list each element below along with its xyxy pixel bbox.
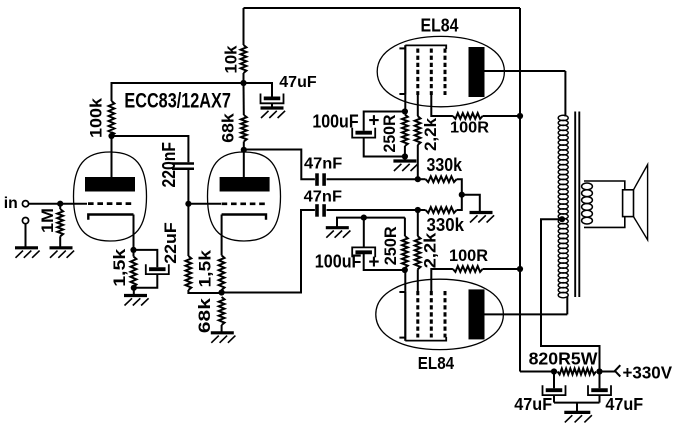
svg-text:820R5W: 820R5W xyxy=(529,348,599,368)
grid V1a dashed xyxy=(88,202,133,205)
wire 47uF right top lead xyxy=(599,372,601,389)
svg-text:+: + xyxy=(368,111,379,132)
label 100uF upper xyxy=(312,111,358,132)
ground decoupling cap xyxy=(261,108,286,118)
wire V2 g2 lead xyxy=(431,95,453,116)
wire V3 g2 lead xyxy=(431,269,453,291)
terminal input shield xyxy=(22,218,28,224)
resistor R 330k lower xyxy=(426,207,457,213)
capacitor C 47nF lower xyxy=(317,204,324,217)
capacitor C 22uF bypass xyxy=(146,264,169,274)
wire 100uF lower ground link xyxy=(337,218,405,227)
label 330k upper xyxy=(427,155,463,175)
wire 100uF upper to ground xyxy=(364,138,405,157)
svg-text:in: in xyxy=(4,195,18,212)
label 22uF xyxy=(162,222,180,264)
svg-text:47uF: 47uF xyxy=(605,394,643,414)
capacitor C 47uF decoupling xyxy=(261,94,284,104)
label 820R5W xyxy=(529,348,599,368)
label 250R upper xyxy=(380,115,399,153)
svg-text:ECC83/12AX7: ECC83/12AX7 xyxy=(124,90,231,113)
node 100uF lower junction xyxy=(361,215,367,221)
resistor R 1M xyxy=(57,209,63,236)
label 47uF right xyxy=(605,394,643,414)
label EL84 lower xyxy=(418,353,455,373)
label ECC83/12AX7 xyxy=(124,90,231,113)
resistor R 68k anode xyxy=(241,115,247,142)
wire 47uF to ground xyxy=(271,103,273,107)
node V1a cathode bottom junction xyxy=(131,285,137,291)
node V1b grid junction xyxy=(185,201,191,207)
resistor R 100R upper xyxy=(453,113,483,119)
wire 100R upper to rail xyxy=(483,115,520,117)
label 68k anode xyxy=(219,113,238,143)
wire secondary top lead xyxy=(584,181,625,190)
tube V1b envelope xyxy=(208,152,281,241)
svg-text:250R: 250R xyxy=(381,226,400,265)
ground input shield xyxy=(15,248,40,258)
wire 47uF right bottom lead xyxy=(599,395,601,403)
wire 22uF bottom link xyxy=(134,274,158,288)
resistor R 100R lower xyxy=(453,266,483,272)
wire 220nF to V1b grid xyxy=(187,170,189,204)
node V1b plate junction xyxy=(241,147,247,153)
grid V2 g3 dashed xyxy=(444,49,447,96)
label 250R lower xyxy=(381,226,400,265)
wire V2 plate lead xyxy=(485,70,566,72)
label 1M xyxy=(39,208,57,233)
wire 330k lower left lead xyxy=(418,209,426,211)
label 47nF upper xyxy=(304,156,342,173)
label EL84 upper xyxy=(421,15,459,35)
wire 2,2k upper to node xyxy=(417,145,419,179)
anode V1a plate xyxy=(85,177,135,192)
wire 100uF lower to node xyxy=(364,252,405,270)
resistor R 2,2k lower xyxy=(415,236,421,269)
label 100uF lower xyxy=(315,251,362,272)
core T1 xyxy=(575,112,579,298)
label 100k xyxy=(88,97,106,138)
svg-text:100R: 100R xyxy=(450,120,489,137)
svg-text:2,2k: 2,2k xyxy=(421,232,440,268)
resistor R 330k upper xyxy=(426,176,457,182)
label plus upper xyxy=(368,111,379,132)
wire T1 primary bottom lead xyxy=(566,297,568,315)
cathode V1a xyxy=(88,215,133,220)
label 1,5k V1a xyxy=(110,248,129,287)
label 68k cathode xyxy=(195,297,214,333)
wire 250R bottom lead xyxy=(404,146,406,157)
wire B+ top rail xyxy=(244,7,521,9)
capacitor C 47uF left xyxy=(543,385,566,395)
tube V1a envelope xyxy=(74,152,147,241)
node 330k common junction xyxy=(459,192,465,198)
resistor R 250R upper xyxy=(402,115,408,147)
cathode V3 xyxy=(399,291,405,340)
wire 250R top lead xyxy=(404,218,406,236)
resistor R 250R lower xyxy=(402,236,408,268)
node V1a cathode junction xyxy=(130,247,136,253)
anode V3 plate xyxy=(469,289,485,339)
wire 1.5k to ground xyxy=(133,288,135,295)
anode V1b plate xyxy=(220,177,270,192)
ground V1b cathode xyxy=(211,333,236,343)
wire V2 g3 tie xyxy=(405,45,446,49)
wire rail to 820R node xyxy=(520,371,554,373)
svg-text:100uF: 100uF xyxy=(315,251,362,272)
resistor R grid leak V1b xyxy=(186,256,192,290)
wire 330k upper left lead xyxy=(418,178,426,180)
wire V1b cathode to 47nF lower xyxy=(222,210,315,293)
wire 47uF left top lead xyxy=(553,372,555,389)
tube V2 EL84 envelope xyxy=(377,36,504,106)
svg-text:250R: 250R xyxy=(380,115,399,153)
inductor T1 primary xyxy=(558,115,568,298)
wire 100uF upper link xyxy=(364,112,405,131)
speaker LS1 xyxy=(623,165,648,240)
node upper grid junction xyxy=(415,176,421,182)
svg-text:100uF: 100uF xyxy=(312,111,358,132)
resistor R 1,5k V1a xyxy=(131,257,137,288)
resistor R 10k xyxy=(241,45,247,73)
node V2 cathode junction xyxy=(402,108,408,114)
label 1,5k V1b xyxy=(196,249,215,287)
svg-text:47uF: 47uF xyxy=(514,394,552,414)
wire 47uF left bottom lead xyxy=(553,395,555,403)
svg-text:47nF: 47nF xyxy=(304,156,342,173)
label 330k lower xyxy=(427,215,465,235)
svg-text:100k: 100k xyxy=(88,97,106,138)
svg-text:220nF: 220nF xyxy=(159,142,179,188)
terminal +330V chevron xyxy=(615,365,620,376)
grid V1b dashed xyxy=(222,202,267,205)
node 100R lower rail junction xyxy=(517,266,523,272)
capacitor C 100uF upper xyxy=(352,128,375,138)
svg-text:100R: 100R xyxy=(449,247,488,265)
wire input to grid xyxy=(29,203,87,205)
wire V1a cathode lead xyxy=(133,215,135,250)
svg-text:47uF: 47uF xyxy=(279,74,317,91)
svg-text:1,5k: 1,5k xyxy=(110,248,129,287)
label 100R upper xyxy=(450,120,489,137)
resistor R 68k cathode xyxy=(219,297,225,325)
node input 1M junction xyxy=(57,201,63,207)
wire 330k common to ground xyxy=(462,195,480,212)
inductor T1 secondary xyxy=(582,183,593,224)
wire 1M to ground xyxy=(59,236,61,247)
ground V2 cathode xyxy=(393,161,418,171)
svg-text:68k: 68k xyxy=(195,297,214,333)
grid V2 g2 dashed xyxy=(430,49,433,96)
resistor R 2,2k upper xyxy=(415,116,421,145)
terminal input jack xyxy=(22,201,28,207)
label 47nF lower xyxy=(304,188,342,205)
node V1a plate junction xyxy=(108,133,114,139)
node lower grid junction xyxy=(415,207,421,213)
resistor R 100k xyxy=(109,101,115,136)
node V1b cathode junction xyxy=(219,289,225,295)
ground PSU xyxy=(564,412,592,422)
svg-text:47nF: 47nF xyxy=(304,188,342,205)
wire secondary bottom lead xyxy=(584,217,625,228)
cathode V2 xyxy=(399,45,405,94)
node 820R right junction +330V xyxy=(596,368,602,374)
wire 2,2k lower to node xyxy=(417,210,419,236)
node 100R upper rail junction xyxy=(517,113,523,119)
svg-text:EL84: EL84 xyxy=(421,15,459,35)
wire V1b cathode lead xyxy=(221,215,223,256)
ground grid leak xyxy=(470,213,495,223)
svg-text:1M: 1M xyxy=(39,208,57,233)
wire V3 cathode lead xyxy=(404,270,406,291)
wire node to 100k top xyxy=(112,83,244,101)
capacitor C 220nF xyxy=(172,164,194,169)
wire V1b plate lead xyxy=(243,150,245,177)
svg-text:2,2k: 2,2k xyxy=(421,117,440,151)
wire V1b grid link xyxy=(188,203,221,205)
svg-text:22uF: 22uF xyxy=(162,222,180,264)
wire grid leak bottom link xyxy=(188,290,221,293)
wire V3 g3 tie xyxy=(405,337,446,341)
label 47uF left xyxy=(514,394,552,414)
anode V2 plate xyxy=(469,47,485,97)
label 2,2k lower xyxy=(421,232,440,268)
wire +330V lead xyxy=(600,371,616,373)
label in xyxy=(4,195,18,212)
label +330V xyxy=(623,362,673,382)
wire 47nF upper to node xyxy=(327,178,418,180)
wire 22uF top link xyxy=(134,250,158,267)
wire V1b plate to 47nF upper xyxy=(244,150,315,180)
cathode V1b xyxy=(222,215,266,220)
svg-text:+330V: +330V xyxy=(623,362,673,382)
wire 47nF lower to node xyxy=(327,209,418,211)
node V3 cathode junction xyxy=(402,267,408,273)
wire V2 cathode lead xyxy=(404,95,406,112)
wire B+ screen rail vertical xyxy=(519,8,521,372)
wire 68k bottom lead xyxy=(221,325,223,332)
label 100R lower xyxy=(449,247,488,265)
node T1 center tap xyxy=(559,216,565,222)
svg-text:EL84: EL84 xyxy=(418,353,455,373)
grid V3 g3 dashed xyxy=(444,291,447,338)
grid V3 g2 dashed xyxy=(430,291,433,338)
label 2,2k upper xyxy=(421,117,440,151)
label 47uF top xyxy=(279,74,317,91)
tube V3 EL84 envelope xyxy=(376,279,504,349)
wire V1a plate to 220nF xyxy=(112,136,189,162)
capacitor C 47nF upper xyxy=(317,173,324,186)
svg-text:330k: 330k xyxy=(427,155,463,175)
wire 330k lower right lead xyxy=(457,195,462,210)
svg-text:68k: 68k xyxy=(219,113,238,143)
svg-text:330k: 330k xyxy=(427,215,465,235)
ground V3 cathode xyxy=(326,228,351,238)
wire filter cap common xyxy=(554,402,600,404)
node 820R left junction xyxy=(551,368,557,374)
ground 1M xyxy=(50,248,75,258)
wire V3 plate lead xyxy=(485,313,568,315)
wire common to ground xyxy=(576,403,578,412)
resistor R 1,5k V1b xyxy=(219,255,225,290)
wire 100uF lower top lead xyxy=(363,218,365,248)
svg-text:10k: 10k xyxy=(221,45,240,74)
capacitor C 47uF right xyxy=(588,385,611,395)
capacitor C 100uF lower xyxy=(352,247,375,257)
ground V1a cathode xyxy=(124,296,149,306)
svg-text:1,5k: 1,5k xyxy=(196,249,215,287)
wire V2 g1 lead xyxy=(417,95,419,116)
wire center tap feed xyxy=(541,219,600,371)
wire 1M top lead xyxy=(59,204,61,209)
wire 68k plate lead top xyxy=(243,83,245,115)
label 220nF xyxy=(159,142,179,188)
wire 100R lower to rail xyxy=(483,268,520,270)
grid V3 g1 dashed xyxy=(416,291,419,338)
wire T1 primary top lead xyxy=(564,71,566,117)
wire node to 47uF decoupling xyxy=(244,83,273,97)
resistor R 820R5W xyxy=(558,369,597,375)
wire 330k upper right lead xyxy=(457,179,462,195)
node B+ preamp junction xyxy=(240,80,246,86)
label 10k xyxy=(221,45,240,74)
wire V1a plate lead xyxy=(111,136,113,177)
wire shield to ground xyxy=(25,224,27,247)
wire 68k to V1b plate xyxy=(243,142,245,150)
wire 10k top lead xyxy=(243,8,245,45)
wire 10k bottom lead xyxy=(243,73,245,83)
grid V2 g1 dashed xyxy=(416,49,419,96)
wire grid leak top lead xyxy=(187,204,189,256)
label plus lower xyxy=(368,252,379,273)
node 250R upper ground junction xyxy=(402,153,408,159)
wire V3 g1 lead xyxy=(417,269,419,291)
wire 1.5k top lead xyxy=(133,250,135,257)
